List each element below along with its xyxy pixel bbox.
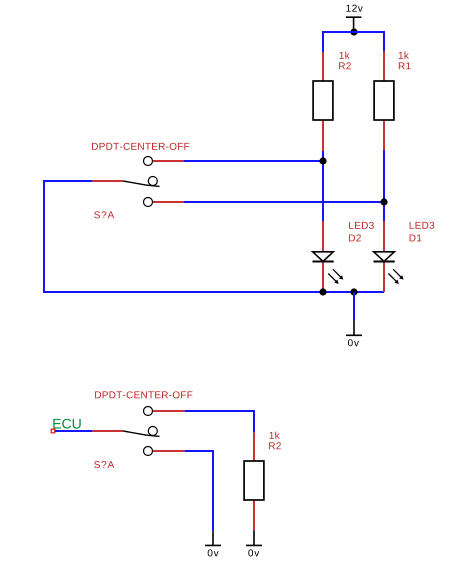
wire ECU to switch pole <box>55 430 92 432</box>
switch S?B pins <box>92 411 184 451</box>
LED D1 pins <box>383 221 385 292</box>
label 1k R2 bottom <box>269 432 281 450</box>
resistor R1 pins <box>383 51 385 150</box>
wire top rail <box>323 32 384 52</box>
node junction at 12v tap <box>350 28 357 35</box>
label 1k R1 <box>399 52 411 70</box>
switch S?B terminals <box>144 407 158 456</box>
label DPDT-CENTER-OFF switch S2 <box>95 391 192 398</box>
label LED3 D1 <box>410 222 435 242</box>
resistor R2b <box>244 461 264 500</box>
ECU node marker <box>51 429 55 433</box>
switch S?A terminals <box>144 157 158 207</box>
LED D1 emission arrows <box>388 269 403 284</box>
ground 0v top circuit <box>346 320 362 346</box>
wire switch bottom throw to ground <box>185 451 213 531</box>
resistor R2 pins <box>322 52 324 151</box>
LED D2 pins <box>322 221 324 292</box>
wire R2 bottom to D2 top <box>322 151 324 221</box>
power supply 12v <box>346 5 363 32</box>
resistor R1 <box>374 81 394 120</box>
LED D2 emission arrows <box>328 269 343 284</box>
LED D2 <box>313 252 334 262</box>
wire switch top throw to R2/D2 column <box>184 160 323 162</box>
node junction R2/D2 <box>319 157 326 164</box>
label DPDT-CENTER-OFF switch S1 <box>92 143 189 150</box>
ground 0v under switch S?B <box>205 531 221 556</box>
node junction ground tap on bottom rail <box>350 288 357 295</box>
node junction R1/D1 <box>380 198 387 205</box>
wire R1 bottom to D1 top <box>383 150 385 221</box>
label S?A top switch <box>94 211 114 218</box>
resistor R2 <box>313 81 333 120</box>
label ECU <box>53 419 80 429</box>
switch S?B lever <box>123 431 159 436</box>
LED D1 <box>374 252 395 262</box>
wire switch top throw to R2b <box>185 411 254 432</box>
label LED3 D2 <box>349 222 374 242</box>
wire bottom rail to ground <box>353 292 355 320</box>
node junction D2 to bottom rail <box>319 288 326 295</box>
wire switch bottom throw to R1/D1 column <box>184 201 384 203</box>
label S?A bottom switch <box>94 461 114 468</box>
wire switch pole to left rail and bottom rail <box>44 181 384 292</box>
resistor R2b pins <box>253 432 255 530</box>
label 1k R2 <box>339 52 351 70</box>
ground 0v under R2b <box>246 530 262 556</box>
switch S?A pins <box>92 161 184 202</box>
switch S?A lever <box>123 181 159 186</box>
